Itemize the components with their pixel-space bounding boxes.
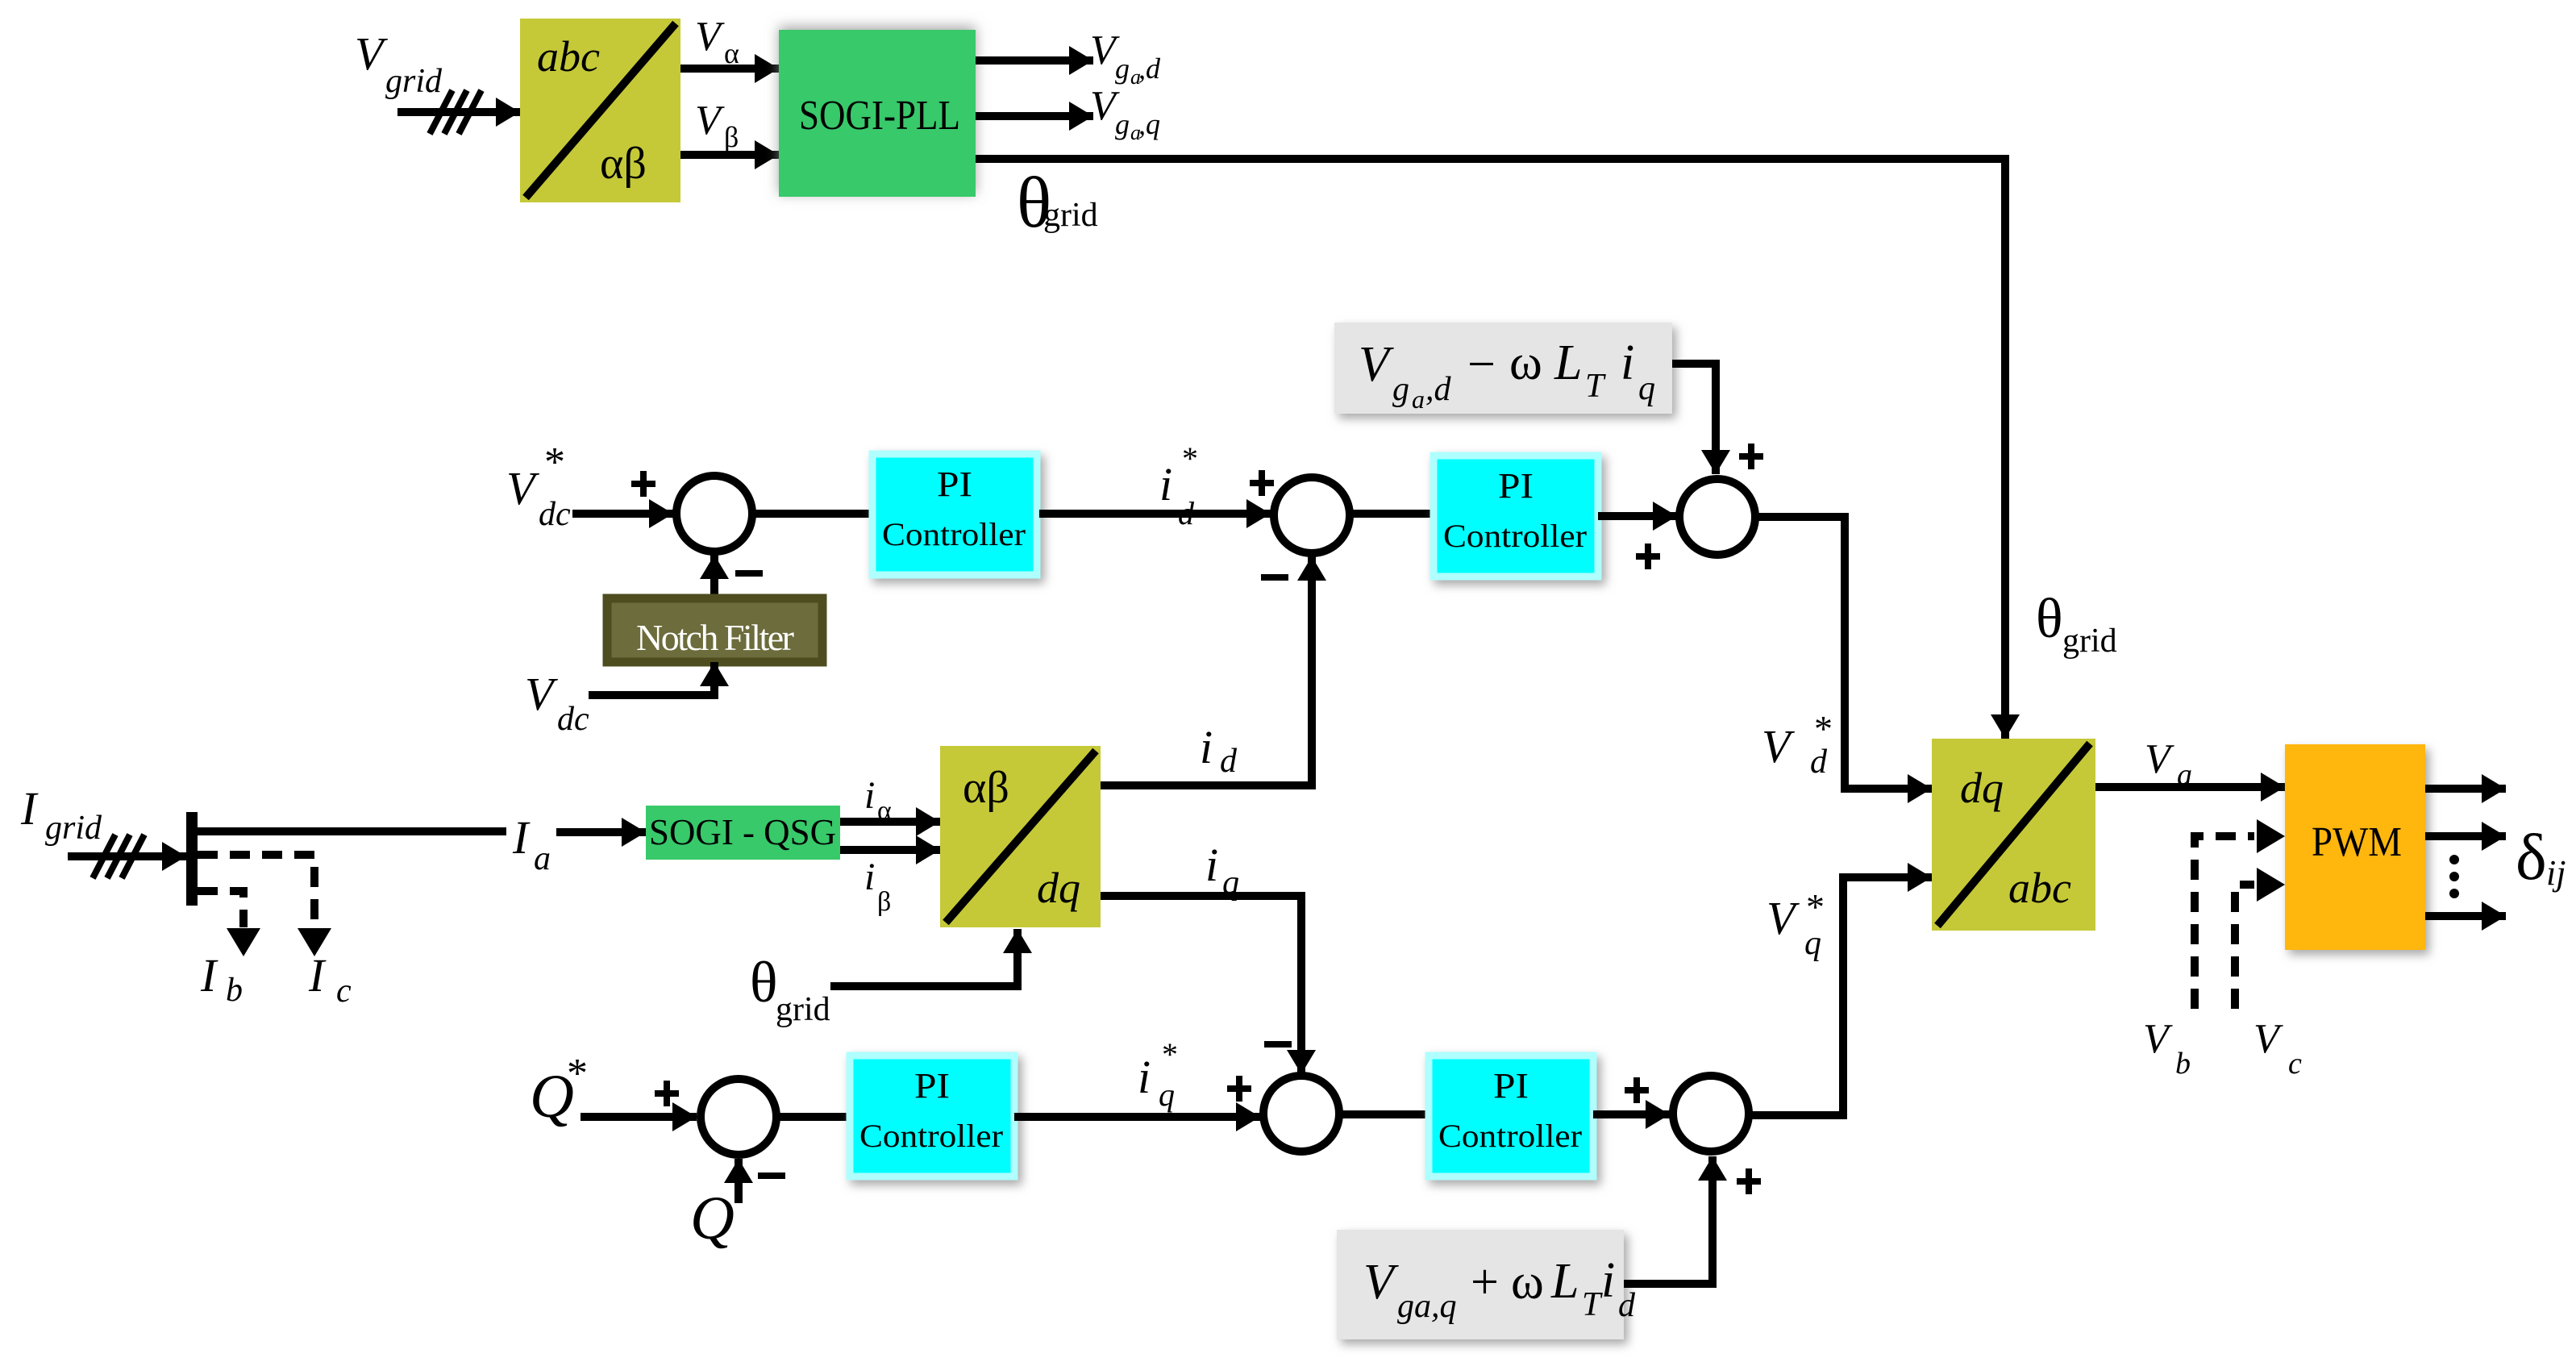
wire PWM output 3 bbox=[2425, 912, 2506, 920]
svg-text:q: q bbox=[1804, 925, 1821, 962]
svg-text:,q: ,q bbox=[1138, 108, 1160, 140]
label V_ga,q bbox=[1090, 83, 1160, 144]
wire gray feedforward to S3 bbox=[1672, 364, 1716, 474]
svg-text:i: i bbox=[1205, 839, 1218, 891]
wire V_ga,q output bbox=[976, 112, 1093, 120]
node vertical dots bbox=[2449, 855, 2459, 898]
wire S4 to PI controller 3 bbox=[776, 1113, 850, 1121]
svg-text:grid: grid bbox=[45, 810, 102, 847]
svg-text:−: − bbox=[1467, 337, 1496, 392]
svg-text:i: i bbox=[1138, 1051, 1151, 1103]
svg-text:b: b bbox=[2175, 1047, 2191, 1081]
block PI controller 4 bbox=[1429, 1056, 1593, 1177]
svg-text:g: g bbox=[1392, 371, 1409, 408]
wire S6 to dq/abc block (V*_q) bbox=[1748, 877, 1932, 1115]
svg-text:dc: dc bbox=[539, 496, 571, 533]
label V*_d bbox=[1762, 708, 1833, 781]
svg-text:V: V bbox=[695, 98, 725, 144]
svg-text:b: b bbox=[226, 972, 243, 1009]
sign plus at S4 input bbox=[655, 1081, 679, 1106]
label delta_ij bbox=[2516, 820, 2566, 893]
label V_a bbox=[2145, 736, 2192, 792]
sign plus below PI2 output bbox=[1636, 544, 1660, 569]
wire i_beta bbox=[840, 846, 940, 854]
label V*_dc bbox=[506, 439, 571, 533]
svg-text:L: L bbox=[1550, 1254, 1579, 1309]
wire i_q to summing junction S5 bbox=[1101, 896, 1301, 1074]
sign minus at S2 bottom bbox=[1261, 574, 1288, 581]
sign minus at S5 top bbox=[1264, 1041, 1292, 1048]
sign plus at S6 bottom bbox=[1737, 1168, 1761, 1194]
svg-text:PI: PI bbox=[937, 464, 972, 504]
label V_b bbox=[2143, 1016, 2191, 1081]
wire S3 to dq/abc block (V*_d) bbox=[1754, 517, 1932, 789]
svg-text:q: q bbox=[1638, 370, 1655, 407]
svg-text:ω: ω bbox=[1509, 335, 1542, 390]
label i*_d bbox=[1159, 440, 1198, 531]
svg-text:I: I bbox=[200, 949, 218, 1002]
svg-text:,d: ,d bbox=[1138, 52, 1161, 85]
svg-text:*: * bbox=[1806, 886, 1825, 927]
svg-text:dq: dq bbox=[1960, 764, 2004, 812]
svg-text:g: g bbox=[1115, 52, 1130, 85]
svg-text:PI: PI bbox=[1498, 466, 1534, 506]
summing junction S1 bbox=[676, 476, 752, 552]
sign plus at S6 input bbox=[1625, 1077, 1649, 1103]
label V_alpha bbox=[695, 14, 739, 69]
wire i_alpha bbox=[840, 818, 940, 826]
wire PI1 to summing junction S2 bbox=[1039, 510, 1271, 518]
wire theta_grid from SOGI-PLL to dq/abc block bbox=[976, 159, 2005, 739]
svg-text:Controller: Controller bbox=[1443, 518, 1587, 554]
svg-text:grid: grid bbox=[1043, 197, 1098, 234]
svg-text:θ: θ bbox=[2036, 588, 2063, 650]
block alpha-beta to dq transform bbox=[940, 746, 1101, 927]
svg-text:SOGI-PLL: SOGI-PLL bbox=[799, 93, 960, 139]
svg-text:I: I bbox=[512, 811, 531, 864]
wire dashed V_b to PWM bbox=[2195, 819, 2285, 1009]
svg-text:SOGI - QSG: SOGI - QSG bbox=[649, 811, 836, 852]
svg-text:V: V bbox=[2143, 1016, 2173, 1062]
wire PI2 to summing junction S3 bbox=[1598, 512, 1677, 520]
label V*_q bbox=[1767, 886, 1825, 962]
svg-text:a: a bbox=[534, 840, 551, 877]
sign plus at S3 top bbox=[1739, 444, 1763, 469]
svg-text:PI: PI bbox=[914, 1066, 950, 1106]
svg-text:grid: grid bbox=[385, 63, 443, 100]
sign minus at S4 bottom bbox=[758, 1172, 785, 1179]
svg-text:i: i bbox=[1200, 721, 1213, 773]
svg-text:*: * bbox=[1182, 440, 1198, 477]
svg-text:a: a bbox=[2177, 758, 2192, 792]
wire V_a to PWM bbox=[2095, 783, 2285, 791]
block dq to abc transform bbox=[1932, 739, 2095, 931]
wire gray feedforward 2 to S6 bbox=[1624, 1156, 1712, 1284]
wire S2 to PI controller 2 bbox=[1350, 510, 1434, 518]
block gray feedforward V_ga,d - w L_T i_q bbox=[1334, 323, 1672, 414]
label I_c bbox=[308, 949, 352, 1010]
svg-text:V: V bbox=[695, 14, 725, 60]
wire V_alpha bbox=[680, 65, 779, 73]
svg-text:q: q bbox=[1159, 1077, 1175, 1113]
svg-text:θ: θ bbox=[750, 950, 778, 1014]
wire dashed V_c to PWM bbox=[2235, 868, 2285, 1009]
label V_c bbox=[2253, 1016, 2302, 1081]
svg-text:dc: dc bbox=[557, 701, 589, 738]
label theta_grid near SOGI-PLL bbox=[1017, 163, 1098, 243]
svg-text:ω: ω bbox=[1511, 1255, 1544, 1310]
block PI controller 2 bbox=[1434, 456, 1598, 577]
wire S1 to PI controller 1 bbox=[752, 510, 872, 518]
svg-text:PWM: PWM bbox=[2312, 819, 2402, 865]
svg-text:Controller: Controller bbox=[859, 1118, 1003, 1154]
label I_a bbox=[512, 811, 551, 877]
wire theta_grid to alpha-beta/dq block bbox=[830, 929, 1017, 986]
wire V_ga,d output bbox=[976, 56, 1093, 65]
wire Notch Filter to S1 bbox=[710, 555, 718, 598]
svg-text:Controller: Controller bbox=[882, 516, 1026, 552]
svg-text:c: c bbox=[2288, 1047, 2302, 1081]
sign minus at S1 bottom bbox=[735, 570, 763, 577]
node bus bar bbox=[186, 812, 198, 906]
svg-text:i: i bbox=[864, 856, 875, 898]
svg-text:i: i bbox=[1159, 458, 1172, 510]
summing junction S4 bbox=[701, 1079, 776, 1155]
svg-text:αβ: αβ bbox=[963, 763, 1009, 813]
svg-text:PI: PI bbox=[1493, 1066, 1529, 1106]
svg-text:i: i bbox=[1601, 1253, 1615, 1308]
sign plus at S2 input bbox=[1250, 470, 1274, 496]
wire V_beta bbox=[680, 151, 779, 159]
svg-text:Controller: Controller bbox=[1438, 1118, 1582, 1154]
block SOGI-PLL bbox=[779, 30, 976, 197]
wire i_d feedback to S2 bbox=[1101, 556, 1312, 785]
wire PWM output 2 bbox=[2425, 832, 2506, 840]
block PWM bbox=[2285, 744, 2425, 950]
label theta_grid near dq/abc bbox=[2036, 588, 2117, 660]
svg-text:ga,q: ga,q bbox=[1397, 1288, 1457, 1325]
block Notch Filter bbox=[607, 598, 822, 662]
svg-text:d: d bbox=[1220, 743, 1238, 780]
svg-text:β: β bbox=[877, 887, 891, 917]
label i*_q bbox=[1138, 1036, 1178, 1113]
block PI controller 3 bbox=[850, 1056, 1014, 1177]
block gray feedforward V_ga,q + w L_T i_d bbox=[1337, 1230, 1636, 1339]
svg-text:abc: abc bbox=[2008, 864, 2071, 912]
wire I_grid input arrow bbox=[68, 835, 186, 878]
label theta_grid near alpha-beta/dq bbox=[750, 950, 830, 1028]
sign plus at S5 input bbox=[1227, 1076, 1251, 1102]
wire V_dc to Notch Filter bbox=[589, 662, 714, 695]
svg-text:V: V bbox=[2145, 736, 2174, 782]
label V_grid bbox=[355, 27, 443, 100]
svg-text:i: i bbox=[864, 774, 875, 817]
svg-text:L: L bbox=[1554, 335, 1582, 390]
summing junction S5 bbox=[1263, 1076, 1339, 1152]
svg-text:ij: ij bbox=[2546, 853, 2566, 893]
label V_beta bbox=[695, 98, 739, 153]
svg-text:β: β bbox=[724, 121, 739, 153]
wire V*_dc to summing junction S1 bbox=[572, 510, 673, 518]
svg-text:*: * bbox=[567, 1051, 588, 1097]
wire PI3 to summing junction S5 bbox=[1014, 1113, 1260, 1121]
svg-text:T: T bbox=[1582, 1286, 1603, 1323]
wire V_grid input arrow bbox=[397, 90, 520, 134]
wire Q to S4 bbox=[735, 1159, 743, 1203]
svg-text:i: i bbox=[1621, 335, 1634, 390]
label i_beta bbox=[864, 856, 891, 917]
svg-text:I: I bbox=[20, 782, 39, 835]
svg-text:T: T bbox=[1585, 368, 1606, 405]
svg-text:V: V bbox=[1363, 1255, 1399, 1310]
svg-text:α: α bbox=[724, 37, 739, 69]
block PI controller 1 bbox=[872, 454, 1037, 575]
wire PWM output 1 bbox=[2425, 785, 2506, 793]
svg-text:,d: ,d bbox=[1425, 371, 1452, 408]
label i_d bbox=[1200, 721, 1238, 780]
wire Q* to summing junction S4 bbox=[581, 1113, 697, 1121]
block SOGI-QSG bbox=[646, 806, 840, 860]
svg-text:αβ: αβ bbox=[600, 139, 647, 189]
wire I_a line bbox=[198, 827, 506, 835]
svg-text:dq: dq bbox=[1037, 864, 1080, 912]
svg-text:*: * bbox=[1162, 1036, 1178, 1073]
svg-text:c: c bbox=[336, 973, 352, 1010]
label I_grid bbox=[20, 782, 102, 847]
svg-text:a: a bbox=[1412, 385, 1425, 414]
svg-text:d: d bbox=[1178, 495, 1195, 531]
wire I_a to SOGI-QSG bbox=[556, 828, 646, 836]
svg-text:q: q bbox=[1222, 864, 1239, 902]
svg-text:d: d bbox=[1618, 1287, 1636, 1324]
label i_q bbox=[1205, 839, 1239, 902]
svg-text:V: V bbox=[1359, 337, 1394, 392]
svg-text:g: g bbox=[1115, 108, 1130, 140]
svg-text:+: + bbox=[1471, 1255, 1499, 1310]
wire dashed I_b branch bbox=[198, 891, 260, 956]
wire PI4 to summing junction S6 bbox=[1593, 1110, 1670, 1118]
sign plus at S1 input bbox=[631, 471, 655, 497]
label I_b bbox=[200, 949, 243, 1009]
summing junction S6 bbox=[1673, 1076, 1749, 1152]
svg-text:abc: abc bbox=[537, 32, 600, 81]
svg-text:grid: grid bbox=[776, 991, 830, 1028]
svg-text:δ: δ bbox=[2516, 820, 2547, 893]
svg-text:Notch Filter: Notch Filter bbox=[636, 617, 794, 658]
svg-text:*: * bbox=[544, 439, 565, 485]
label Q* bbox=[530, 1051, 588, 1131]
svg-text:Q: Q bbox=[690, 1185, 735, 1252]
wire dashed I_c branch bbox=[198, 855, 331, 956]
svg-text:grid: grid bbox=[2062, 623, 2117, 660]
wire S5 to PI controller 4 bbox=[1339, 1110, 1429, 1118]
label V_ga,d bbox=[1090, 27, 1161, 89]
label i_alpha bbox=[864, 774, 892, 826]
svg-text:α: α bbox=[877, 796, 892, 826]
summing junction S2 bbox=[1274, 477, 1350, 553]
summing junction S3 bbox=[1679, 479, 1755, 555]
svg-text:d: d bbox=[1810, 743, 1828, 781]
svg-text:V: V bbox=[2253, 1016, 2283, 1062]
svg-text:I: I bbox=[308, 949, 327, 1002]
block abc to alpha-beta transform bbox=[520, 19, 680, 202]
label V_dc bbox=[525, 668, 589, 738]
